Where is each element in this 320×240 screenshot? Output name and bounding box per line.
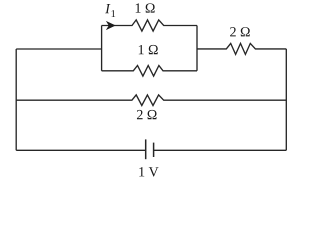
wire: battery to bottom right — [154, 149, 287, 151]
label 1 ohm (bottom parallel resistor) — [139, 45, 158, 54]
current arrow I1 — [107, 22, 115, 30]
label 1 ohm (top resistor) — [136, 3, 155, 12]
resistor R4 2 ohm (middle branch) — [16, 95, 286, 106]
wire: bottom left to battery — [16, 149, 146, 151]
battery V1 1 V (long plate) — [145, 139, 147, 159]
resistor R1 1 ohm (top branch of parallel pair) — [102, 20, 197, 31]
wire: left vertical branch — [15, 49, 17, 150]
label 1 V (battery) — [139, 167, 158, 176]
label 2 ohm (middle resistor) — [137, 110, 157, 119]
wire: parallel network right vertical — [196, 26, 198, 71]
resistor R3 2 ohm (top right series) — [197, 43, 286, 54]
label I1 subscript — [112, 10, 116, 17]
wire: top-left horizontal to parallel network — [16, 48, 101, 50]
wire: parallel network left vertical — [101, 26, 103, 71]
resistor R2 1 ohm (bottom branch of parallel pair) — [102, 66, 197, 77]
wire: right vertical branch — [285, 49, 287, 150]
battery V1 1 V (short plate) — [153, 143, 155, 157]
label 2 ohm (right series resistor) — [230, 27, 250, 36]
label I1 — [105, 4, 110, 13]
